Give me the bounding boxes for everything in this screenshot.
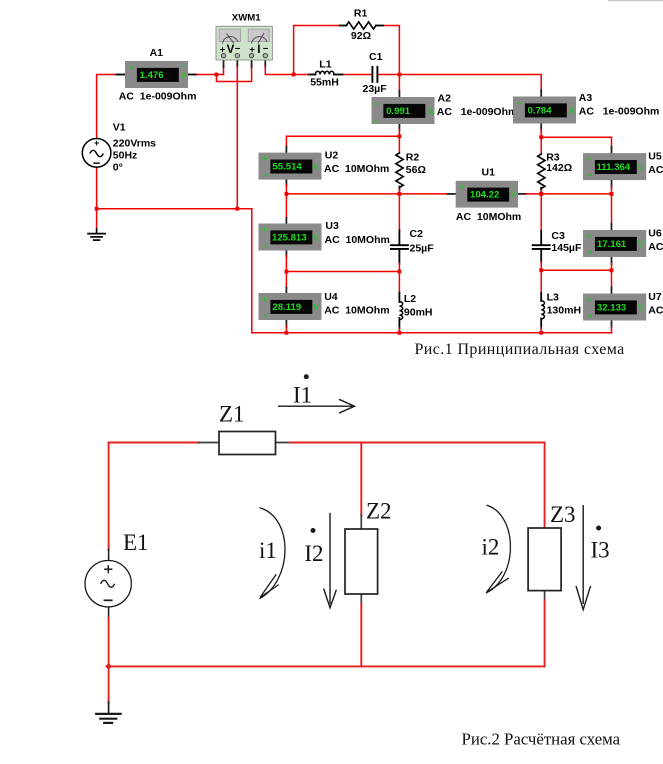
svg-text:0.784: 0.784 — [528, 105, 553, 116]
svg-text:i1: i1 — [259, 538, 277, 563]
wire node A2 to U2 top — [286, 136, 399, 147]
wire rail1 left — [286, 193, 448, 195]
svg-text:+: + — [262, 154, 267, 163]
svg-text:AC: AC — [648, 241, 663, 253]
E1 black lead top — [108, 549, 110, 560]
wire U3 bottom lead — [285, 250, 287, 256]
impedance Z2 — [345, 499, 392, 595]
svg-text:L1: L1 — [319, 58, 331, 70]
current I3 arrow — [576, 505, 601, 610]
wire C2 top — [398, 194, 400, 231]
svg-text:i2: i2 — [482, 535, 500, 560]
svg-text:I2: I2 — [304, 541, 323, 566]
node E1 bottom junction — [105, 663, 112, 670]
node A junction — [215, 73, 219, 77]
node U4 bottom junction — [285, 331, 289, 335]
svg-text:23µF: 23µF — [363, 83, 388, 95]
svg-text:+: + — [262, 225, 267, 234]
inductor L3 — [541, 301, 544, 319]
svg-text:17.161: 17.161 — [597, 239, 627, 250]
node R3 rail junction — [539, 192, 543, 196]
wire A1 right stub — [188, 74, 197, 76]
wire L3 top — [540, 270, 542, 293]
junction dots figure 1 — [95, 73, 614, 335]
svg-text:-: - — [182, 62, 185, 71]
svg-text:V: V — [510, 191, 516, 200]
svg-text:AC 10MOhm: AC 10MOhm — [324, 163, 389, 175]
resistor R2 — [396, 153, 403, 188]
voltmeter U7 — [583, 291, 663, 321]
node U5/U6 junction — [610, 192, 614, 196]
svg-text:I3: I3 — [591, 538, 610, 563]
wire fig2 top rail — [109, 442, 200, 444]
wire R3 top — [540, 137, 542, 154]
wire U6 top lead — [611, 194, 613, 225]
svg-text:V: V — [638, 304, 644, 313]
svg-text:U5: U5 — [648, 151, 662, 163]
svg-text:AC 10MOhm: AC 10MOhm — [456, 211, 521, 223]
source E1 — [85, 530, 149, 607]
node L3 bottom junction — [539, 331, 543, 335]
svg-text:V: V — [313, 303, 319, 312]
wire node A3 to U5 top — [541, 137, 611, 147]
wire C2 bottom — [398, 250, 400, 264]
wire Z3 branch bottom — [544, 591, 546, 601]
wire L2 bottom — [398, 318, 400, 329]
svg-text:AC 10MOhm: AC 10MOhm — [324, 304, 389, 316]
svg-text:C2: C2 — [410, 228, 424, 240]
svg-text:U4: U4 — [324, 291, 338, 303]
node A2/U2/R2 junction — [398, 134, 402, 138]
svg-text:R1: R1 — [354, 8, 368, 20]
svg-text:XWM1: XWM1 — [232, 13, 261, 24]
svg-text:125.813: 125.813 — [272, 233, 307, 244]
wattmeter XWM1 — [216, 13, 272, 60]
resistor R3 — [538, 154, 545, 189]
capacitor C2 — [391, 244, 408, 246]
node R2 rail junction — [398, 192, 402, 196]
svg-text:Рис.1 Принципиальная схема: Рис.1 Принципиальная схема — [415, 341, 625, 358]
svg-text:+: + — [588, 171, 593, 180]
svg-text:+: + — [517, 99, 522, 108]
capacitor C1 — [371, 67, 373, 82]
wire fig2 ground lead — [108, 666, 110, 702]
wire XWM1 terminal V- down to ground rail — [236, 58, 238, 68]
svg-text:111.364: 111.364 — [597, 162, 631, 173]
svg-text:92Ω: 92Ω — [351, 30, 371, 42]
svg-text:C3: C3 — [551, 230, 565, 242]
ammeter A3 — [513, 92, 659, 124]
wire L2 top — [398, 272, 400, 294]
current I1 arrow — [278, 374, 355, 413]
svg-text:55mH: 55mH — [310, 77, 339, 89]
svg-text:1.476: 1.476 — [140, 70, 164, 81]
svg-text:-: - — [517, 115, 520, 124]
svg-text:220Vrms: 220Vrms — [113, 138, 156, 150]
svg-text:U1: U1 — [482, 167, 496, 179]
svg-text:I1: I1 — [293, 383, 312, 408]
node V1 ground junction — [95, 207, 99, 211]
svg-text:25µF: 25µF — [410, 242, 435, 254]
wire fig2 top rail right — [290, 442, 545, 444]
svg-text:I: I — [257, 44, 260, 56]
svg-text:A: A — [569, 106, 575, 115]
wire Z2 branch top — [360, 443, 362, 516]
svg-text:V: V — [638, 240, 644, 249]
svg-text:L2: L2 — [404, 293, 416, 305]
svg-text:-: - — [376, 115, 379, 124]
ground fig2 — [96, 713, 120, 715]
node U2/U3 junction — [285, 192, 289, 196]
wire C1 to corner, down to A3 — [378, 75, 541, 91]
svg-text:Z3: Z3 — [550, 502, 576, 527]
svg-text:AC: AC — [648, 305, 663, 317]
wire C3 bottom — [540, 250, 542, 263]
wire to ground symbol — [96, 209, 98, 230]
svg-text:A2: A2 — [438, 93, 452, 105]
svg-text:+: + — [263, 242, 268, 251]
svg-text:130mH: 130mH — [547, 305, 581, 317]
node U3/U4 junction — [285, 270, 289, 274]
inductor L2 — [399, 302, 402, 320]
svg-text:90mH: 90mH — [404, 307, 433, 319]
svg-text:U3: U3 — [325, 220, 339, 232]
wire C3 top — [540, 194, 542, 232]
node A3/R3/U5 junction — [539, 135, 543, 139]
wire rail3 left — [286, 271, 399, 273]
impedance Z3 — [528, 502, 575, 591]
resistor R1 — [340, 25, 347, 27]
ground — [96, 229, 98, 234]
wire branch node A to XWM1 terminal I+ — [217, 67, 252, 82]
svg-text:32.133: 32.133 — [597, 303, 626, 314]
svg-text:A: A — [428, 107, 434, 116]
svg-text:E1: E1 — [123, 530, 149, 555]
wire U4 top lead — [285, 272, 287, 289]
wire main line L1 segment — [294, 74, 310, 76]
svg-text:+: + — [588, 312, 593, 321]
wire fig2 top left vertical — [108, 443, 110, 550]
svg-text:+: + — [129, 63, 134, 72]
svg-text:-: - — [511, 181, 514, 190]
voltmeter U5 — [583, 151, 663, 181]
wire U3 top lead — [285, 194, 287, 219]
wire A1 to node A — [197, 74, 224, 76]
svg-text:U7: U7 — [648, 291, 662, 303]
voltmeter U2 — [259, 149, 390, 179]
node R1 left junction — [292, 73, 296, 77]
svg-text:0°: 0° — [113, 162, 123, 174]
wire U4 bottom lead — [285, 320, 287, 327]
svg-text:V: V — [638, 163, 644, 172]
svg-text:+: + — [94, 138, 99, 148]
wire riser to XWM1 terminal V+ — [223, 67, 225, 75]
svg-text:+: + — [587, 232, 592, 241]
wire R2 bottom — [398, 189, 400, 194]
svg-text:+: + — [262, 295, 267, 304]
current I2 arrow — [311, 513, 337, 608]
wire Z3 branch top — [544, 443, 546, 529]
wire A2 top lead — [398, 75, 400, 92]
voltmeter U1 — [456, 167, 522, 223]
svg-text:+: + — [587, 295, 592, 304]
wire bottom rail — [252, 332, 612, 334]
wire R1 branch right riser — [384, 26, 400, 75]
node XWM V- ground junction — [235, 207, 239, 211]
wire fig2 bottom rail — [109, 665, 545, 667]
svg-text:L3: L3 — [547, 291, 559, 303]
wire rail1 right — [526, 193, 612, 195]
svg-text:AC: AC — [648, 164, 663, 176]
svg-text:U2: U2 — [325, 149, 339, 161]
mesh current i1 arc — [260, 508, 286, 599]
wire XWM1 terminal I- to main line — [264, 58, 266, 68]
svg-text:55.514: 55.514 — [272, 162, 302, 173]
svg-text:A1: A1 — [150, 47, 164, 59]
node C2/L2 junction — [398, 270, 402, 274]
wire R1 branch left riser — [294, 26, 341, 75]
svg-text:+: + — [263, 311, 268, 320]
wire Z2 branch bottom — [360, 594, 362, 605]
voltmeter U4 — [259, 291, 390, 320]
svg-text:V1: V1 — [113, 122, 126, 134]
wire U5 bottom lead — [611, 180, 613, 187]
wire R2 top — [398, 136, 400, 153]
wire U1 right stub — [518, 193, 526, 195]
svg-text:104.22: 104.22 — [470, 190, 499, 201]
wire left link down — [251, 209, 253, 333]
wire E1 bottom — [108, 607, 110, 619]
wire Z1 right stub — [276, 442, 291, 444]
svg-text:A: A — [181, 71, 187, 80]
wire R3 bottom — [540, 190, 542, 194]
svg-text:AC 1e-009Ohm: AC 1e-009Ohm — [437, 106, 518, 118]
wire A2 bottom lead — [398, 124, 400, 131]
svg-text:56Ω: 56Ω — [406, 164, 426, 176]
mesh current i2 arc — [486, 505, 511, 593]
svg-text:Z1: Z1 — [219, 402, 245, 427]
wire V1 top to A1 — [97, 75, 118, 139]
svg-text:145µF: 145µF — [551, 242, 582, 254]
impedance Z1 — [219, 402, 276, 455]
svg-text:Рис.2 Расчётная схема: Рис.2 Расчётная схема — [462, 730, 621, 749]
wire L1 to C1 — [342, 74, 372, 76]
wire U7 top lead — [611, 270, 613, 288]
svg-text:AC 1e-009Ohm: AC 1e-009Ohm — [119, 90, 197, 102]
svg-text:−: − — [235, 44, 241, 55]
voltmeter U3 — [259, 220, 390, 250]
wire U1 left stub — [448, 193, 456, 195]
svg-text:Z2: Z2 — [366, 499, 392, 524]
svg-text:AC 10MOhm: AC 10MOhm — [325, 234, 390, 246]
svg-text:+: + — [588, 248, 593, 257]
svg-text:A3: A3 — [579, 92, 593, 104]
node C3/L3 junction — [539, 268, 543, 272]
ammeter A2 — [372, 93, 518, 125]
svg-text:+: + — [263, 171, 268, 180]
wire U7 bottom lead — [611, 321, 613, 327]
svg-text:C1: C1 — [369, 51, 383, 63]
wire U2 bottom lead — [285, 180, 287, 186]
wire A3 bottom lead — [540, 123, 542, 130]
svg-text:V: V — [227, 44, 235, 56]
wire U6 bottom lead — [611, 257, 613, 264]
svg-text:+: + — [460, 182, 465, 191]
svg-text:0.991: 0.991 — [386, 106, 411, 117]
voltmeter U6 — [583, 228, 663, 258]
capacitor C3 — [533, 244, 550, 246]
svg-text:V: V — [313, 163, 319, 172]
wire rail2 right — [541, 269, 611, 271]
svg-text:50Hz: 50Hz — [113, 150, 138, 162]
svg-text:+: + — [587, 155, 592, 164]
svg-text:AC 1e-009Ohm: AC 1e-009Ohm — [579, 106, 660, 118]
wire V1 bottom — [96, 167, 98, 209]
wire ground rail — [97, 208, 252, 210]
node U6/U7 junction — [610, 268, 614, 272]
wire A1 left stub — [117, 74, 126, 76]
AC source V1 — [82, 122, 156, 174]
wire L3 bottom — [540, 319, 542, 329]
ammeter A1 — [119, 47, 197, 102]
wire Z1 left stub — [199, 442, 220, 444]
svg-text:+: + — [375, 99, 380, 108]
svg-text:142Ω: 142Ω — [546, 162, 572, 174]
inductor L1 — [309, 74, 315, 76]
svg-text:U6: U6 — [648, 228, 662, 240]
node C1/R1/A2 junction — [398, 73, 402, 77]
node L2 bottom junction — [398, 331, 402, 335]
svg-text:V: V — [313, 234, 319, 243]
window border artifact top right — [608, 0, 663, 1]
svg-text:−: − — [263, 44, 269, 55]
svg-text:R2: R2 — [406, 152, 420, 164]
svg-text:28.119: 28.119 — [272, 302, 301, 313]
